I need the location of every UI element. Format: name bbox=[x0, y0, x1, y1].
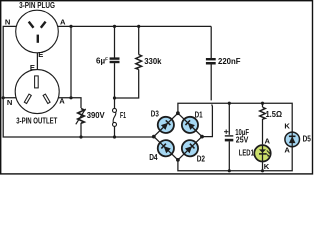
svg-text:F1: F1 bbox=[120, 111, 126, 120]
resistor 330k bbox=[136, 55, 142, 70]
fuse F1 bbox=[113, 108, 117, 126]
svg-text:1.5Ω: 1.5Ω bbox=[266, 110, 283, 119]
node: 6uF/330k/fuse junction bbox=[113, 96, 116, 99]
wire: 220nF bottom lead bbox=[210, 64, 212, 100]
wire: plug A riser to outlet A bbox=[70, 26, 72, 97]
wire: top rail (A) bbox=[47, 25, 211, 27]
svg-text:N: N bbox=[7, 98, 12, 107]
capacitor 6uF bbox=[110, 57, 120, 63]
junction: LED1 on DC- rail bbox=[261, 169, 264, 172]
wire: outlet N stub bbox=[3, 97, 25, 99]
node: bridge top vertex bbox=[176, 111, 180, 115]
wire: outlet A to varistor top bbox=[50, 98, 81, 108]
svg-text:D2: D2 bbox=[197, 154, 206, 163]
outlet slot earth bbox=[35, 76, 39, 88]
junction: plug A riser on top rail bbox=[69, 25, 72, 28]
capacitor 220nF bbox=[206, 58, 216, 65]
resistor 1.5R bbox=[260, 107, 266, 119]
node: bridge right vertex bbox=[200, 135, 204, 139]
node: bridge left vertex bbox=[152, 135, 156, 139]
varistor 390V bbox=[76, 109, 86, 125]
capacitor 10uF electrolytic bbox=[225, 135, 234, 141]
bridge diamond edge L-B bbox=[154, 137, 178, 160]
diode D4 bbox=[154, 136, 178, 160]
border frame bbox=[1, 1, 313, 174]
svg-text:K: K bbox=[284, 122, 290, 131]
node: bridge bottom vertex bbox=[176, 158, 180, 162]
diode D1 bbox=[178, 113, 202, 137]
wire: 6uF bottom to fuse top bbox=[114, 63, 116, 108]
wire: 10uF top lead bbox=[228, 103, 230, 135]
junction: riser on outlet A wire bbox=[69, 96, 72, 99]
LED1 bbox=[254, 144, 270, 162]
wire: plug E to outlet E bbox=[36, 43, 38, 76]
wire: plug N to left rail bbox=[3, 26, 154, 137]
svg-text:25V: 25V bbox=[236, 135, 249, 144]
wire: 330k bottom to node bbox=[115, 70, 139, 99]
3-pin plug bbox=[16, 10, 59, 53]
diode D2 bbox=[178, 136, 202, 160]
plus sign 10uF bbox=[224, 130, 228, 134]
wire: bridge top vertex riser + DC+ rail bbox=[178, 103, 292, 132]
svg-text:A: A bbox=[59, 97, 65, 106]
svg-text:N: N bbox=[5, 17, 10, 26]
svg-text:220nF: 220nF bbox=[218, 57, 241, 66]
bridge diamond edge L-T bbox=[154, 113, 178, 136]
svg-text:A: A bbox=[265, 136, 271, 145]
diode D3 bbox=[154, 113, 178, 137]
svg-text:K: K bbox=[264, 162, 270, 171]
outlet slot left bbox=[24, 94, 31, 103]
bridge diamond edge T-R bbox=[178, 113, 202, 136]
junction: 10uF on DC- rail bbox=[228, 169, 231, 172]
wire: varistor bottom lead bbox=[80, 123, 82, 137]
junction: 10uF on DC+ rail bbox=[228, 102, 231, 105]
svg-text:A: A bbox=[284, 146, 290, 155]
wire: LED1 bottom lead bbox=[262, 162, 264, 170]
bridge diamond edge B-R bbox=[178, 137, 202, 160]
junction: varistor on N rail bbox=[79, 135, 82, 138]
wire: 6uF column top bbox=[114, 26, 116, 57]
wire: hop jog to bridge right vertex bbox=[202, 104, 212, 136]
svg-text:3-PIN OUTLET: 3-PIN OUTLET bbox=[16, 116, 58, 126]
diode D5 bbox=[285, 131, 300, 148]
junction: 6uF column on top rail bbox=[113, 25, 116, 28]
wire: 10uF bottom lead bbox=[228, 142, 230, 171]
svg-text:3-PIN PLUG: 3-PIN PLUG bbox=[19, 0, 55, 10]
junction: fuse on N rail bbox=[113, 135, 116, 138]
wire: bridge bottom vertex to DC- rail bbox=[178, 147, 292, 171]
svg-text:D5: D5 bbox=[303, 135, 312, 144]
junction: 1.5R on DC+ rail bbox=[261, 102, 264, 105]
plug pin right bbox=[40, 21, 47, 29]
svg-text:A: A bbox=[60, 17, 66, 26]
wire: 1.5R to LED1 bbox=[262, 119, 264, 144]
junction: outlet N on left rail bbox=[2, 96, 5, 99]
junction: 330k column on top rail bbox=[137, 25, 140, 28]
svg-text:D3: D3 bbox=[151, 109, 160, 118]
svg-text:390V: 390V bbox=[87, 111, 106, 120]
svg-text:D4: D4 bbox=[149, 153, 158, 162]
plug pin earth bbox=[37, 35, 39, 43]
svg-text:E: E bbox=[38, 50, 43, 59]
3-pin outlet bbox=[15, 70, 59, 114]
wire: fuse bottom lead bbox=[114, 126, 116, 137]
outlet slot right bbox=[43, 94, 50, 103]
svg-text:D1: D1 bbox=[195, 111, 204, 120]
wire: 330k column bbox=[138, 26, 140, 54]
svg-text:LED1: LED1 bbox=[239, 149, 255, 158]
wire: 1.5R top lead bbox=[262, 103, 264, 107]
wire: 220nF column top bbox=[210, 26, 212, 58]
svg-text:330k: 330k bbox=[144, 57, 162, 66]
plug pin left bbox=[28, 21, 35, 29]
